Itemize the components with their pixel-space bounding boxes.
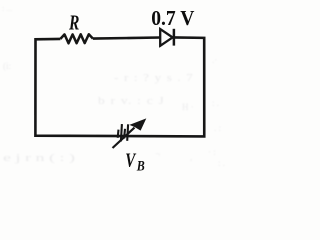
svg-text:b r v. : c J: b r v. : c J [98,95,165,107]
svg-text:,: , [190,152,192,162]
svg-text:: ...: : ... [2,4,12,13]
svg-text:B: B [136,158,145,174]
svg-text:: .: : . [218,158,225,168]
svg-text:0.7 V: 0.7 V [151,6,194,30]
svg-text:· :: · : [208,147,216,157]
svg-text:. :: . : [214,123,221,133]
svg-text:(i:: (i: [3,61,11,71]
svg-text:H ·: H · [182,102,194,112]
svg-text:e j r n ( : ): e j r n ( : ) [3,152,76,164]
svg-text:¬: ¬ [155,149,160,159]
svg-text:: .: : . [212,98,219,108]
svg-text:.·: .· [212,55,217,65]
svg-text:R: R [68,13,79,35]
svg-text:V: V [125,149,136,171]
svg-text:- r : ? y s . 7: - r : ? y s . 7 [114,72,194,84]
